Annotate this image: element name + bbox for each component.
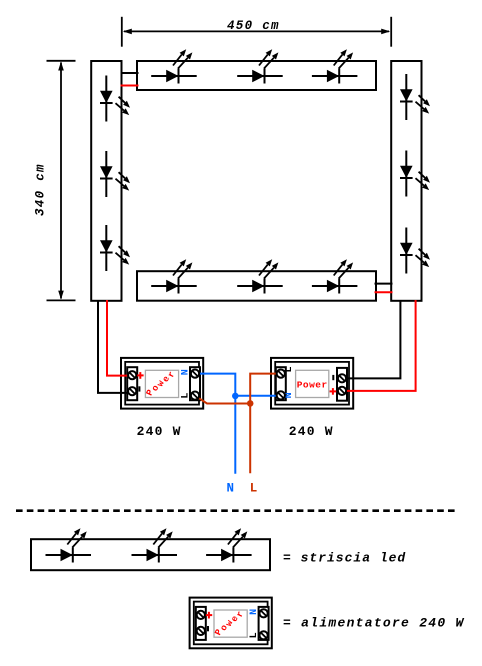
legend PSU (alimentatore) Power label box <box>211 606 248 640</box>
LED D1 <box>100 76 130 122</box>
svg-text:450 cm: 450 cm <box>227 19 280 33</box>
PSU1 (alimentatore 240 W, left) label - (V-) <box>138 386 140 391</box>
LED D2 <box>100 151 130 197</box>
PSU2 (alimentatore 240 W, right) Power label box <box>296 370 329 397</box>
svg-text:Power: Power <box>297 379 328 390</box>
svg-text:N: N <box>249 609 260 615</box>
junction node N (blue dot) <box>232 393 239 400</box>
dimension line 340 cm <box>34 61 76 301</box>
PSU2 terminal screw V- <box>338 374 346 382</box>
LED D11 <box>237 259 283 293</box>
legend LED L3 <box>206 528 252 562</box>
wire red: bottom strip to right strip bridge <box>375 291 393 293</box>
dashed separator line <box>16 509 458 512</box>
PSU1 terminal screw L <box>191 392 199 400</box>
PSU2 (alimentatore 240 W, right) label + (V+) <box>330 388 337 395</box>
PSU2 terminal screw N <box>277 391 285 399</box>
PSU1 terminal screw V- <box>128 387 136 395</box>
wire red: left strip to top strip bridge <box>121 85 139 87</box>
wire orange: junction to mains L lead <box>249 404 251 474</box>
legend PSU (alimentatore) DC output terminal block (left) <box>196 607 206 640</box>
LED D7 <box>400 74 430 120</box>
wire orange: junction to PSU2 L <box>250 374 279 404</box>
legend PSU (alimentatore) AC input terminal block (right) <box>259 607 269 640</box>
svg-text:N: N <box>227 482 235 496</box>
svg-text:240 W: 240 W <box>289 424 334 439</box>
PSU1 (alimentatore 240 W, left) AC input terminal block (right) <box>190 367 200 400</box>
PSU2 (alimentatore 240 W, right) label - (V-) <box>332 375 334 380</box>
wire blue: PSU1 N to junction column <box>197 374 236 396</box>
legend PSU (alimentatore) label + (V+) <box>206 612 213 619</box>
PSU2 (alimentatore 240 W, right) DC output terminal block (right) <box>337 368 347 401</box>
junction node L (orange dot) <box>247 400 254 407</box>
wire black: left strip bottom to PSU1 V- <box>98 300 131 393</box>
LED D5 <box>237 49 283 83</box>
PSU1 terminal screw V+ <box>128 371 136 379</box>
wire red: left strip bottom to PSU1 V+ <box>107 300 131 376</box>
wire blue: junction to PSU2 N <box>235 395 279 397</box>
legend LED strip symbol <box>31 539 270 570</box>
PSU1 (alimentatore 240 W, left) DC output terminal block (left) <box>127 367 137 400</box>
wire black: left strip to top strip bridge <box>121 72 139 74</box>
wire black: bottom strip to right strip bridge <box>375 283 393 285</box>
PSU1 (alimentatore 240 W, left) label + (V+) <box>137 372 144 379</box>
svg-text:L: L <box>250 482 258 496</box>
svg-text:= striscia led: = striscia led <box>283 550 406 565</box>
power supply legend PSU (alimentatore) case <box>190 598 272 649</box>
svg-text:= alimentatore 240 W: = alimentatore 240 W <box>283 616 465 631</box>
LED D9 <box>400 228 430 274</box>
svg-text:340 cm: 340 cm <box>34 163 48 216</box>
legend PSU terminal screw N <box>260 609 268 617</box>
legend PSU terminal screw V+ <box>197 611 205 619</box>
LED strip S1 (left vertical) <box>91 61 121 301</box>
wire red: right strip bottom to PSU2 V+ <box>344 300 416 391</box>
LED D3 <box>100 225 130 271</box>
legend LED L1 <box>46 528 91 562</box>
power supply PSU2 (alimentatore 240 W, right) case <box>271 358 353 409</box>
svg-text:L: L <box>284 366 295 372</box>
LED D8 <box>400 151 430 197</box>
PSU2 terminal screw V+ <box>338 387 346 395</box>
PSU2 (alimentatore 240 W, right) AC input terminal block (left) <box>276 367 286 400</box>
PSU2 terminal screw L <box>277 370 285 378</box>
LED strip S2 (top horizontal) <box>137 61 376 90</box>
legend PSU (alimentatore) label - (V-) <box>207 626 209 631</box>
svg-text:N: N <box>180 369 191 375</box>
legend PSU terminal screw L <box>260 631 268 639</box>
legend PSU terminal screw V- <box>197 627 205 635</box>
PSU1 (alimentatore 240 W, left) Power label box <box>143 366 180 400</box>
legend LED L2 <box>132 528 178 562</box>
LED D10 <box>151 259 197 293</box>
dimension line 450 cm <box>122 17 391 47</box>
svg-text:L: L <box>180 393 191 399</box>
svg-text:240 W: 240 W <box>137 424 182 439</box>
svg-text:L: L <box>249 632 260 638</box>
wire black: right strip bottom to PSU2 V- <box>344 300 401 378</box>
LED strip S3 (right vertical) <box>391 61 421 301</box>
power supply PSU1 (alimentatore 240 W, left) case <box>121 358 203 409</box>
wire orange: PSU1 L to junction <box>196 396 250 403</box>
LED D6 <box>312 49 358 83</box>
LED strip S4 (bottom horizontal) <box>137 271 376 301</box>
LED D12 <box>312 259 358 293</box>
wire blue: junction to mains N lead <box>234 396 236 474</box>
PSU1 terminal screw N <box>191 370 199 378</box>
LED D4 <box>151 49 197 83</box>
